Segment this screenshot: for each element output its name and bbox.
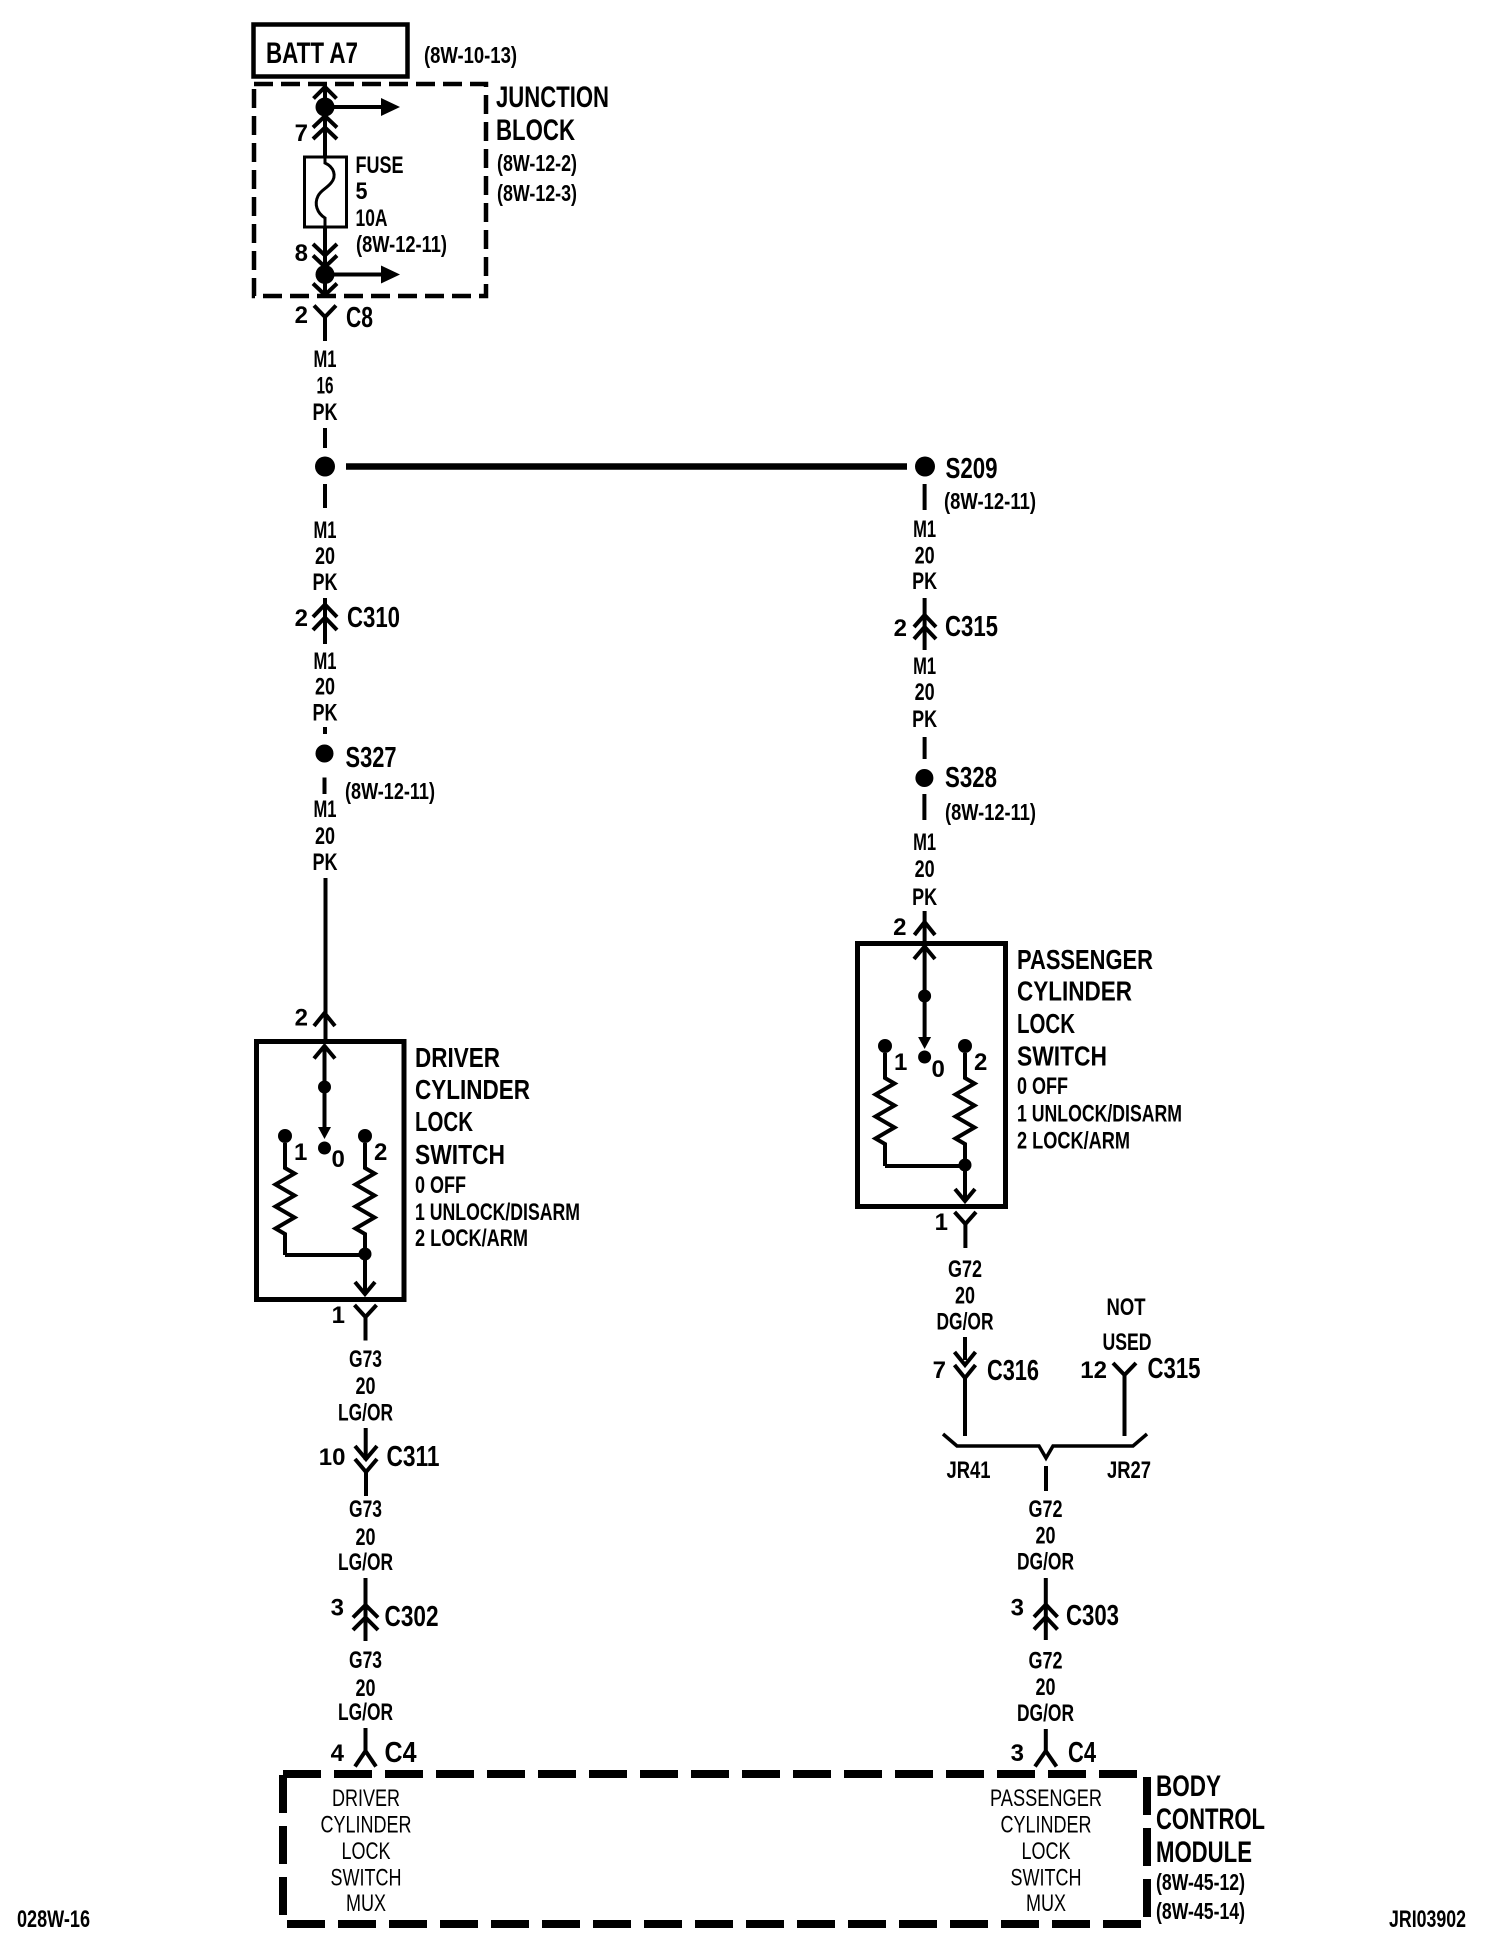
svg-text:C311: C311: [387, 1441, 440, 1473]
svg-text:LG/OR: LG/OR: [338, 1549, 393, 1576]
svg-text:LOCK: LOCK: [1022, 1838, 1071, 1865]
svg-text:20: 20: [915, 543, 935, 570]
svg-text:S328: S328: [945, 762, 997, 794]
svg-text:1 UNLOCK/DISARM: 1 UNLOCK/DISARM: [415, 1199, 580, 1226]
fuse 5 10A: [305, 157, 347, 227]
svg-text:G72: G72: [948, 1256, 982, 1283]
resistor (position 2): [356, 1143, 375, 1252]
svg-text:C310: C310: [347, 602, 400, 634]
wire to driver switch: [324, 878, 328, 1040]
svg-text:2: 2: [893, 914, 906, 941]
svg-text:0 OFF: 0 OFF: [415, 1172, 466, 1199]
exit arrow through junction block border: [323, 275, 327, 295]
svg-text:20: 20: [1036, 1523, 1056, 1550]
output junction dot: [359, 1248, 372, 1261]
svg-text:2 LOCK/ARM: 2 LOCK/ARM: [1017, 1128, 1130, 1155]
resistor (position 2): [956, 1053, 975, 1164]
switch common arrowhead: [314, 1046, 335, 1059]
svg-text:C315: C315: [945, 611, 998, 643]
connector C4 (driver): [364, 1728, 368, 1752]
svg-text:SWITCH: SWITCH: [1017, 1041, 1107, 1072]
svg-text:G73: G73: [349, 1496, 382, 1523]
junction block dashed outline: [254, 84, 486, 296]
contact 2 dot: [358, 1129, 372, 1143]
wire: [323, 428, 327, 448]
svg-text:BODY: BODY: [1156, 1770, 1221, 1803]
svg-text:3: 3: [331, 1595, 344, 1622]
svg-text:C302: C302: [385, 1601, 439, 1633]
svg-text:G72: G72: [1029, 1648, 1063, 1675]
svg-text:20: 20: [356, 1675, 376, 1702]
splice S328: [915, 769, 933, 787]
svg-text:FUSE: FUSE: [356, 152, 404, 179]
output wire with arrowhead: [363, 1254, 367, 1293]
svg-text:20: 20: [1036, 1674, 1056, 1701]
svg-text:M1: M1: [314, 517, 337, 544]
svg-text:C4: C4: [385, 1737, 417, 1769]
svg-text:LG/OR: LG/OR: [338, 1699, 393, 1726]
svg-text:S209: S209: [946, 453, 998, 485]
svg-text:0: 0: [332, 1146, 345, 1173]
connector chevron at passenger switch: [914, 922, 935, 935]
svg-text:MODULE: MODULE: [1156, 1836, 1252, 1869]
connector C302: [364, 1578, 368, 1641]
svg-text:DG/OR: DG/OR: [937, 1309, 994, 1336]
svg-text:DRIVER: DRIVER: [332, 1785, 400, 1812]
svg-text:M1: M1: [314, 796, 337, 823]
svg-text:MUX: MUX: [346, 1890, 386, 1917]
svg-text:2: 2: [974, 1049, 987, 1076]
wire up-arrow to BATT A7: [323, 88, 327, 107]
position 0 dot: [318, 1142, 331, 1155]
svg-text:PK: PK: [313, 849, 338, 876]
svg-text:20: 20: [915, 856, 935, 883]
svg-text:7: 7: [295, 120, 308, 147]
position 0 dot: [918, 1051, 931, 1064]
svg-text:028W-16: 028W-16: [17, 1906, 90, 1933]
connector C316: [963, 1337, 967, 1360]
body control module dashed outline: [283, 1774, 1147, 1924]
svg-text:C8: C8: [346, 302, 373, 334]
svg-text:SWITCH: SWITCH: [331, 1865, 402, 1892]
contact 1 dot: [878, 1039, 892, 1053]
svg-text:20: 20: [356, 1524, 376, 1551]
connector chevron at driver switch: [314, 1013, 335, 1026]
svg-text:(8W-45-12): (8W-45-12): [1156, 1869, 1245, 1895]
svg-text:12: 12: [1080, 1357, 1107, 1384]
svg-text:NOT: NOT: [1107, 1294, 1146, 1321]
svg-text:16: 16: [317, 373, 334, 400]
resistor (position 1): [876, 1053, 895, 1166]
svg-text:M1: M1: [314, 346, 337, 373]
splice dot lower (junction block): [316, 265, 335, 284]
joining wire: [285, 1253, 365, 1257]
svg-text:PASSENGER: PASSENGER: [990, 1785, 1102, 1812]
svg-text:C4: C4: [1068, 1737, 1096, 1769]
svg-text:CYLINDER: CYLINDER: [1017, 976, 1132, 1007]
svg-text:USED: USED: [1103, 1329, 1152, 1356]
svg-text:C303: C303: [1066, 1600, 1119, 1632]
svg-text:4: 4: [331, 1740, 345, 1767]
svg-text:LOCK: LOCK: [415, 1106, 473, 1137]
svg-text:0: 0: [932, 1056, 945, 1083]
svg-text:2: 2: [295, 1005, 308, 1032]
svg-text:10A: 10A: [356, 205, 388, 232]
svg-text:G73: G73: [349, 1647, 382, 1674]
branch arrow right (lower): [334, 273, 381, 277]
svg-text:2: 2: [374, 1139, 387, 1166]
wire fuse to pin 8: [323, 227, 327, 265]
wire: [922, 794, 926, 820]
svg-text:DG/OR: DG/OR: [1017, 1700, 1074, 1727]
svg-text:(8W-12-2): (8W-12-2): [497, 150, 577, 176]
svg-text:2 LOCK/ARM: 2 LOCK/ARM: [415, 1225, 528, 1252]
svg-text:LG/OR: LG/OR: [338, 1400, 393, 1427]
svg-text:(8W-12-11): (8W-12-11): [945, 799, 1036, 825]
wire: [323, 727, 327, 734]
svg-text:LOCK: LOCK: [1017, 1008, 1075, 1039]
svg-text:0 OFF: 0 OFF: [1017, 1073, 1068, 1100]
svg-text:DG/OR: DG/OR: [1017, 1549, 1074, 1576]
connector C303: [1044, 1578, 1048, 1640]
svg-text:PK: PK: [912, 706, 937, 733]
splice node dot (bus tap): [315, 457, 335, 477]
svg-text:PASSENGER: PASSENGER: [1017, 944, 1153, 975]
svg-text:2: 2: [894, 615, 907, 642]
wire to passenger switch: [923, 911, 927, 942]
passenger cylinder lock switch box: [858, 944, 1006, 1207]
svg-text:20: 20: [315, 543, 335, 570]
battery feed box BATT A7: [254, 25, 408, 77]
svg-text:PK: PK: [912, 568, 937, 595]
connector C4 (passenger): [1044, 1729, 1048, 1752]
svg-text:G72: G72: [1029, 1496, 1063, 1523]
switch pivot dot: [918, 990, 931, 1003]
svg-text:1: 1: [935, 1209, 948, 1236]
splice S209: [915, 457, 935, 477]
svg-text:JR41: JR41: [947, 1457, 991, 1484]
wire: [323, 778, 327, 795]
svg-text:1: 1: [294, 1139, 307, 1166]
joining wire: [885, 1164, 965, 1168]
svg-text:C315: C315: [1148, 1353, 1201, 1385]
svg-text:JUNCTION: JUNCTION: [496, 81, 609, 114]
svg-text:8: 8: [295, 240, 308, 267]
connector C311: [364, 1428, 368, 1460]
svg-text:2: 2: [295, 302, 308, 329]
svg-text:20: 20: [315, 674, 335, 701]
connector C310: [323, 598, 327, 644]
svg-text:CYLINDER: CYLINDER: [1001, 1812, 1092, 1839]
svg-text:M1: M1: [314, 648, 337, 675]
wiper arrow to position 0: [323, 1087, 327, 1128]
svg-text:1: 1: [332, 1302, 345, 1329]
svg-text:SWITCH: SWITCH: [415, 1139, 505, 1170]
svg-text:M1: M1: [913, 829, 936, 856]
branch arrow right (upper): [334, 105, 381, 109]
connector Y below driver switch: [355, 1305, 377, 1317]
svg-text:20: 20: [356, 1373, 376, 1400]
svg-text:S327: S327: [346, 742, 397, 774]
svg-text:(8W-10-13): (8W-10-13): [424, 42, 517, 68]
svg-text:MUX: MUX: [1026, 1890, 1066, 1917]
switch pivot dot: [318, 1081, 331, 1094]
resistor (position 1): [276, 1143, 295, 1255]
svg-text:5: 5: [356, 178, 368, 205]
connector C315: [923, 598, 927, 650]
splice S327: [316, 745, 334, 763]
svg-text:3: 3: [1011, 1595, 1024, 1622]
wire: [923, 737, 927, 759]
svg-text:(8W-12-11): (8W-12-11): [356, 231, 447, 257]
svg-text:LOCK: LOCK: [342, 1838, 391, 1865]
wire from brace: [1044, 1466, 1048, 1491]
svg-text:C316: C316: [987, 1355, 1039, 1387]
svg-text:BATT A7: BATT A7: [266, 37, 358, 70]
output junction dot: [959, 1159, 972, 1172]
svg-text:1 UNLOCK/DISARM: 1 UNLOCK/DISARM: [1017, 1101, 1182, 1128]
wire: [923, 484, 927, 510]
connector Y below passenger switch: [955, 1212, 976, 1224]
svg-text:M1: M1: [913, 653, 936, 680]
svg-text:3: 3: [1011, 1740, 1024, 1767]
brace joining JR41 and JR27: [943, 1434, 1147, 1458]
svg-text:M1: M1: [913, 516, 936, 543]
svg-text:JR27: JR27: [1107, 1457, 1151, 1484]
svg-text:PK: PK: [313, 700, 338, 727]
svg-text:PK: PK: [313, 569, 338, 596]
svg-text:2: 2: [295, 605, 308, 632]
svg-text:(8W-12-11): (8W-12-11): [345, 778, 435, 804]
wire: [323, 484, 327, 508]
svg-text:CYLINDER: CYLINDER: [415, 1074, 530, 1105]
svg-text:10: 10: [319, 1444, 346, 1471]
svg-text:SWITCH: SWITCH: [1011, 1865, 1082, 1892]
svg-text:20: 20: [955, 1283, 975, 1310]
wiper arrow to position 0: [923, 996, 927, 1038]
svg-text:(8W-12-11): (8W-12-11): [944, 488, 1036, 514]
svg-text:BLOCK: BLOCK: [496, 114, 575, 147]
svg-text:7: 7: [933, 1357, 946, 1384]
switch common arrowhead: [914, 947, 935, 960]
svg-text:(8W-12-3): (8W-12-3): [497, 180, 577, 206]
connector C8: [314, 306, 336, 318]
connector C315 (BCM side, not used): [1113, 1363, 1136, 1375]
driver cylinder lock switch box: [257, 1042, 405, 1300]
contact 1 dot: [278, 1129, 292, 1143]
connector chevrons pin 7: [323, 107, 327, 157]
svg-text:CYLINDER: CYLINDER: [321, 1812, 412, 1839]
svg-text:20: 20: [315, 823, 335, 850]
contact 2 dot: [958, 1039, 972, 1053]
svg-text:PK: PK: [313, 399, 338, 426]
svg-text:1: 1: [894, 1049, 907, 1076]
svg-text:JRI03902: JRI03902: [1389, 1906, 1466, 1933]
svg-text:PK: PK: [912, 884, 937, 911]
bus wire to S209: [346, 463, 907, 470]
output wire with arrowhead: [963, 1165, 967, 1200]
connector chevrons pin 8: [313, 244, 337, 256]
svg-text:CONTROL: CONTROL: [1156, 1803, 1265, 1836]
svg-text:G73: G73: [349, 1346, 382, 1373]
splice dot upper (junction block): [316, 98, 335, 117]
svg-text:(8W-45-14): (8W-45-14): [1156, 1898, 1245, 1924]
svg-text:DRIVER: DRIVER: [415, 1042, 500, 1073]
svg-text:20: 20: [915, 679, 935, 706]
